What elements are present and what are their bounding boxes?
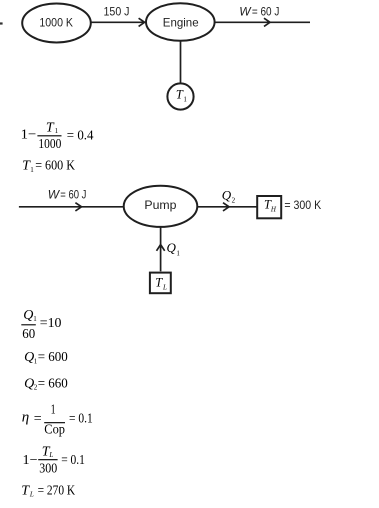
svg-text:= 60 J: = 60 J (252, 4, 280, 18)
pump ellipse (124, 186, 198, 227)
svg-text:= 300 K: = 300 K (284, 198, 321, 212)
equation: Q2 = 660 (24, 376, 68, 391)
svg-text:1: 1 (30, 166, 34, 174)
value label Q2 (222, 188, 236, 205)
svg-text:1000: 1000 (38, 137, 61, 152)
equation: 1 - TL/300 = 0.1 (23, 444, 85, 476)
svg-text:η: η (22, 410, 29, 426)
svg-text:Q: Q (23, 308, 33, 323)
svg-text:W: W (239, 4, 252, 18)
equation: TL = 270 K (21, 483, 75, 498)
svg-text:L: L (48, 451, 53, 459)
svg-text:Cop: Cop (44, 422, 65, 437)
svg-text:1: 1 (55, 127, 59, 135)
equation: Q1/60 = 10 (21, 308, 61, 342)
wire: heat input arrow (91, 18, 145, 26)
value label W = 60 J (top) (239, 4, 279, 18)
svg-text:L: L (162, 283, 167, 291)
svg-text:1−: 1− (23, 453, 38, 468)
svg-text:= 0.4: = 0.4 (67, 128, 94, 143)
svg-text:= 600: = 600 (38, 350, 68, 365)
svg-text:60: 60 (22, 327, 35, 342)
svg-text:1: 1 (51, 403, 56, 418)
svg-text:Q: Q (222, 188, 232, 203)
svg-text:= 660: = 660 (38, 376, 68, 391)
node T1 circle (167, 83, 193, 109)
wire: Q1 arrow from TL to pump (157, 227, 165, 271)
svg-text:L: L (29, 491, 34, 499)
svg-text:1000 K: 1000 K (39, 16, 73, 30)
svg-text:=10: =10 (40, 316, 62, 331)
value label W = 60 J (pump input) (48, 188, 87, 202)
engine ellipse (146, 3, 215, 41)
svg-text:1: 1 (33, 315, 37, 323)
svg-text:H: H (270, 205, 277, 213)
wire: work output arrow (215, 18, 310, 26)
box TL (150, 273, 171, 294)
svg-text:300: 300 (39, 461, 57, 476)
svg-text:= 0.1: = 0.1 (61, 453, 85, 468)
svg-text:1: 1 (176, 249, 180, 257)
svg-text:T: T (46, 120, 55, 135)
value label Q1 (167, 240, 181, 257)
svg-text:Pump: Pump (144, 198, 176, 212)
reservoir ellipse 1000 K (22, 4, 91, 43)
edge mark (cut-off bullet) (0, 22, 3, 24)
svg-text:150 J: 150 J (104, 4, 130, 18)
equation: eta = 1/Cop = 0.1 (22, 403, 93, 438)
svg-text:T: T (155, 275, 163, 289)
svg-text:W: W (48, 188, 61, 202)
equation: T1 = 600 K (22, 158, 75, 173)
svg-text:= 60 J: = 60 J (60, 188, 86, 202)
svg-text:=: = (34, 411, 42, 426)
svg-text:1: 1 (183, 96, 187, 104)
svg-text:Engine: Engine (163, 15, 199, 29)
equation: 1 - T1/1000 = 0.4 (21, 120, 94, 152)
wire: work input arrow (pump) (19, 203, 124, 211)
svg-text:2: 2 (232, 197, 236, 205)
svg-text:= 0.1: = 0.1 (69, 412, 93, 427)
svg-text:1−: 1− (21, 128, 37, 143)
equation: Q1 = 600 (24, 350, 68, 365)
svg-text:= 600 K: = 600 K (35, 158, 75, 173)
svg-text:= 270 K: = 270 K (38, 483, 76, 498)
wire: Q2 arrow to TH (197, 203, 257, 211)
svg-text:Q: Q (167, 240, 177, 255)
box TH (257, 196, 281, 218)
wire: engine to T1 (180, 41, 182, 84)
